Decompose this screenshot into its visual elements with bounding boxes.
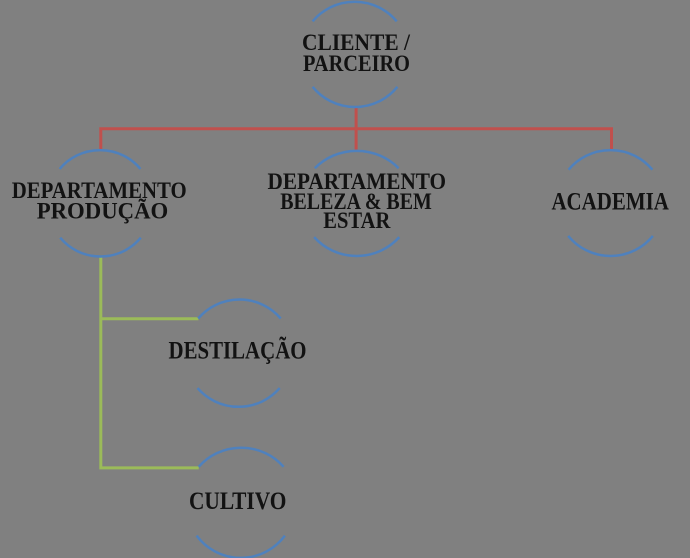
svg-text:PRODUÇÃO: PRODUÇÃO	[37, 198, 169, 224]
node CULTIVO circle arcs	[197, 448, 285, 558]
svg-text:ACADEMIA: ACADEMIA	[551, 189, 669, 216]
node CLIENTE/PARCEIRO label	[302, 30, 410, 77]
node ACADEMIA label	[551, 189, 669, 216]
wire green branch to DESTILACAO	[101, 317, 199, 320]
wire red vertical from CLIENTE/PARCEIRO to DEPARTAMENTO BELEZA	[355, 107, 358, 150]
wire green vertical with bottom elbow to CULTIVO	[101, 256, 199, 468]
node DESTILACAO label	[169, 336, 307, 364]
node DESTILACAO circle arcs	[198, 300, 281, 407]
svg-text:ESTAR: ESTAR	[323, 208, 391, 234]
node CULTIVO label	[189, 486, 287, 515]
node CLIENTE/PARCEIRO circle arcs	[313, 2, 398, 107]
svg-text:DESTILAÇÃO: DESTILAÇÃO	[169, 336, 307, 364]
node DEPARTAMENTO PRODUCAO label	[12, 178, 187, 224]
node ACADEMIA circle arcs	[568, 150, 653, 256]
svg-text:CULTIVO: CULTIVO	[189, 486, 287, 515]
node DEPARTAMENTO BELEZA & BEM ESTAR circle arcs	[314, 151, 399, 256]
node DEPARTAMENTO BELEZA & BEM ESTAR label	[267, 169, 446, 234]
svg-text:PARCEIRO: PARCEIRO	[303, 51, 410, 77]
node DEPARTAMENTO PRODUCAO circle arcs	[60, 150, 141, 256]
wire red elbow connector (horizontal bus with left and right drops)	[101, 129, 612, 151]
